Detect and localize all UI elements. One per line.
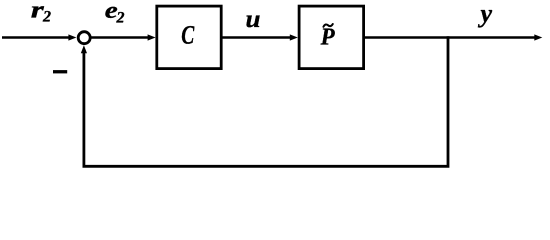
wire: arrowhead up into junction (81, 45, 87, 53)
wire: input r2 line (2, 36, 70, 39)
wire: feedback path (tap down, bottom, left, up) (84, 36, 448, 166)
wire: arrowhead into C (148, 34, 156, 40)
wire: arrowhead into P (290, 34, 298, 40)
wire: C to P (222, 36, 291, 39)
wire: output arrowhead (534, 34, 542, 40)
svg-text:2: 2 (116, 10, 125, 27)
wire: output line y (365, 36, 536, 39)
label: minus sign of feedback input (53, 70, 67, 73)
svg-text:y: y (478, 0, 493, 28)
wire: junction to block C (91, 36, 149, 39)
node: summing junction circle (78, 32, 90, 44)
block P tilde (plant) (299, 6, 364, 69)
label tilde over P (323, 24, 332, 27)
wire: arrowhead into summing junction (68, 34, 76, 40)
svg-text:2: 2 (42, 8, 51, 25)
svg-text:C: C (181, 21, 194, 50)
svg-text:u: u (246, 6, 261, 33)
svg-text:P: P (320, 24, 335, 50)
block C (controller) (157, 6, 221, 69)
